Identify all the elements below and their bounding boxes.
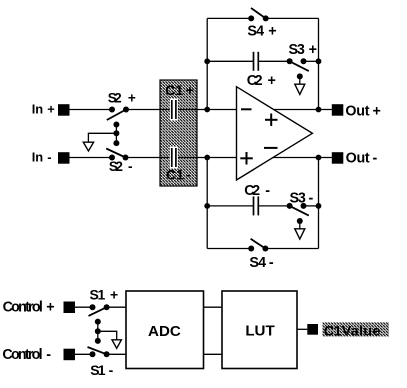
svg-text:-: - <box>109 362 114 378</box>
svg-text:Control: Control <box>3 300 43 316</box>
svg-text:Value: Value <box>342 323 381 339</box>
svg-text:-: - <box>128 159 133 174</box>
svg-text:S4: S4 <box>249 255 266 271</box>
svg-text:+: + <box>268 73 276 89</box>
svg-text:-: - <box>46 347 51 363</box>
svg-text:1: 1 <box>175 82 183 98</box>
svg-text:S3: S3 <box>289 42 305 58</box>
svg-text:+: + <box>268 23 276 39</box>
svg-text:C: C <box>324 323 334 339</box>
svg-text:S2: S2 <box>108 91 122 106</box>
svg-text:C2: C2 <box>247 73 263 89</box>
svg-text:+: + <box>128 91 136 106</box>
svg-text:-: - <box>47 150 51 165</box>
svg-text:+: + <box>186 82 194 98</box>
svg-text:1: 1 <box>334 323 342 339</box>
svg-text:+: + <box>110 286 118 302</box>
svg-text:-: - <box>186 167 191 183</box>
svg-text:S1: S1 <box>90 286 106 302</box>
svg-text:+: + <box>373 103 381 119</box>
svg-text:-: - <box>309 190 314 206</box>
svg-text:In: In <box>32 150 44 165</box>
svg-text:Control: Control <box>2 347 42 363</box>
svg-text:LUT: LUT <box>245 322 275 339</box>
svg-text:C2: C2 <box>244 183 260 199</box>
svg-text:-: - <box>373 151 378 167</box>
svg-text:Out: Out <box>346 151 370 167</box>
svg-text:S1: S1 <box>90 362 106 378</box>
svg-text:-: - <box>269 255 274 271</box>
svg-text:S4: S4 <box>247 23 264 39</box>
svg-text:ADC: ADC <box>148 323 181 340</box>
svg-text:1: 1 <box>176 167 184 183</box>
svg-text:+: + <box>46 300 54 316</box>
svg-text:+: + <box>47 102 55 117</box>
svg-text:C: C <box>166 167 176 183</box>
svg-text:S2: S2 <box>109 159 123 174</box>
svg-text:S3: S3 <box>290 190 306 206</box>
svg-text:Out: Out <box>345 103 369 119</box>
svg-text:+: + <box>309 42 317 58</box>
svg-text:C: C <box>165 82 175 98</box>
svg-text:In: In <box>32 102 44 117</box>
svg-text:-: - <box>265 183 270 199</box>
